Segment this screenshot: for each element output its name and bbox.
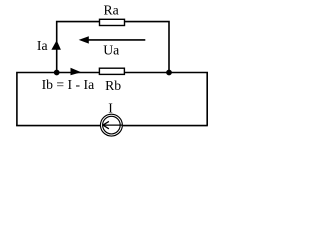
current source I	[100, 114, 122, 136]
wire	[123, 125, 208, 127]
resistor Rb	[99, 68, 124, 74]
svg-text:Ra: Ra	[104, 3, 119, 18]
junction node	[166, 70, 172, 76]
svg-text:I: I	[108, 100, 113, 115]
svg-text:Rb: Rb	[105, 78, 121, 93]
wire	[16, 125, 100, 127]
wire	[17, 73, 100, 126]
current arrow Ib	[71, 68, 82, 75]
wire	[125, 22, 170, 73]
wire	[57, 22, 100, 73]
svg-text:Ib = I - Ia: Ib = I - Ia	[42, 77, 95, 92]
voltage arrow Ua	[79, 36, 146, 43]
junction node	[54, 70, 60, 76]
wire	[124, 73, 207, 126]
current arrow Ia	[51, 40, 61, 50]
svg-text:Ua: Ua	[103, 42, 119, 57]
resistor Ra	[100, 19, 125, 25]
svg-text:Ia: Ia	[37, 38, 48, 53]
